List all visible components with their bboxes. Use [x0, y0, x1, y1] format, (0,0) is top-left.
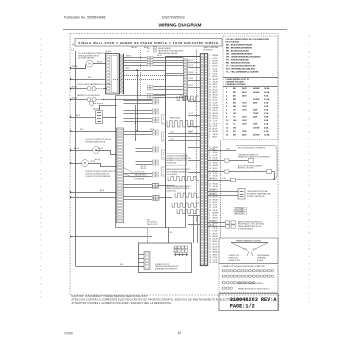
svg-text:0.8A: 0.8A	[264, 116, 269, 119]
wire border to power board	[70, 236, 152, 238]
svg-text:0.3A: 0.3A	[264, 101, 269, 104]
svg-text:VT-18: VT-18	[189, 124, 193, 126]
svg-text:CAUTION: DISCONNECT POWER BEFO: CAUTION: DISCONNECT POWER BEFORE SERVICI…	[72, 295, 149, 298]
connector codes box	[219, 264, 278, 293]
wire row BK-18 P-18	[208, 178, 236, 182]
door lock motor	[70, 147, 117, 155]
broil element note	[167, 186, 192, 193]
svg-text:BR-18: BR-18	[213, 136, 218, 138]
junction column	[135, 105, 146, 170]
neutral bus wire	[75, 51, 77, 266]
svg-text:750W: 750W	[253, 113, 258, 115]
svg-text:WH-12 GY-12: WH-12 GY-12	[147, 224, 158, 226]
relay board label	[147, 47, 184, 55]
svg-text:COLOR CODE/CODIGO DE COLORES/C: COLOR CODE/CODIGO DE COLORES/CODE	[226, 39, 270, 41]
svg-text:RD-18: RD-18	[174, 248, 179, 250]
timer label	[203, 46, 218, 51]
wiring harness legend box	[219, 238, 278, 264]
ladder wedge marks	[124, 168, 135, 178]
header rule	[63, 29, 287, 31]
relay pin column right	[183, 59, 187, 100]
dashed partition right area	[220, 140, 222, 238]
cooling fan motor label	[78, 52, 110, 60]
svg-text:0.3A: 0.3A	[264, 105, 269, 108]
svg-text:12.5A: 12.5A	[264, 91, 270, 94]
wire relay to power board	[168, 228, 170, 244]
wire L1 from border	[70, 68, 86, 70]
element wire rows	[168, 132, 200, 141]
svg-text:M: M	[84, 162, 86, 165]
svg-text:2500W 240V: 2500W 240V	[167, 162, 178, 164]
svg-text:Publication No. 5995544686: Publication No. 5995544686	[64, 16, 106, 20]
svg-text:P-18: P-18	[226, 149, 230, 151]
svg-text:0.1A: 0.1A	[264, 130, 269, 133]
svg-text:AFTER 12 HOURS: AFTER 12 HOURS	[238, 167, 254, 170]
wire EOC to relay top	[113, 47, 166, 131]
svg-text:FACULTATIF: FACULTATIF	[235, 212, 245, 215]
svg-text:120V: 120V	[242, 106, 247, 108]
svg-text:BK-8: BK-8	[150, 129, 154, 131]
element meander top	[177, 96, 199, 101]
svg-text:WH-18: WH-18	[210, 221, 215, 223]
svg-text:ATTENTION:COUPEZ L'ALIMENTATIO: ATTENTION:COUPEZ L'ALIMENTATION AVANT D'…	[72, 302, 173, 305]
oven wiring box	[116, 96, 186, 228]
svg-text:07/09: 07/09	[65, 331, 73, 335]
svg-text:240V: 240V	[242, 133, 247, 136]
svg-text:L1-8: L1-8	[169, 232, 172, 234]
svg-text:DE PUERTA: DE PUERTA	[135, 178, 145, 181]
svg-text:CLOCK: CLOCK	[105, 51, 112, 53]
svg-text:WH-18: WH-18	[72, 98, 77, 100]
temperature probe connector	[208, 189, 271, 200]
door lock motor label	[85, 138, 111, 143]
svg-text:J-##: J-##	[253, 248, 256, 250]
svg-text:RD - RED/ROJO/ROUGE: RD - RED/ROJO/ROUGE	[226, 63, 251, 65]
wire to door connector	[70, 190, 117, 193]
bake element meander	[167, 117, 196, 127]
svg-text:BK-18: BK-18	[210, 178, 215, 180]
auto shutoff rounded box	[236, 146, 277, 180]
svg-text:RD-18: RD-18	[189, 65, 194, 67]
oven lamp pair 2	[70, 98, 153, 106]
relay coils	[161, 115, 165, 176]
relay board top wires	[124, 55, 184, 98]
main connector ladder P1	[200, 54, 208, 267]
svg-text:TABLEAU DES RELAIS: TABLEAU DES RELAIS	[158, 52, 178, 55]
oven lamp pair 1	[70, 87, 107, 91]
wire W-8 long	[70, 129, 154, 132]
svg-text:RD-18: RD-18	[141, 168, 146, 170]
svg-text:BU-18: BU-18	[189, 85, 194, 87]
svg-text:BK-8: BK-8	[126, 68, 130, 70]
svg-text:1200W: 1200W	[253, 99, 259, 101]
svg-text:240V: 240V	[242, 94, 247, 97]
svg-text:GY-18: GY-18	[189, 99, 194, 101]
svg-text:4.8A: 4.8A	[264, 126, 269, 129]
svg-text:120V: 120V	[242, 110, 247, 112]
svg-text:BK-18: BK-18	[157, 55, 162, 57]
svg-text:0.5A: 0.5A	[264, 119, 269, 122]
svg-text:WH-18: WH-18	[210, 194, 215, 196]
convection motor label	[85, 171, 116, 178]
svg-text:DE HORNO: DE HORNO	[203, 50, 213, 52]
convection motor	[70, 159, 117, 167]
svg-text:W-8: W-8	[120, 264, 123, 266]
svg-text:WH-18: WH-18	[126, 56, 131, 58]
svg-text:120V: 120V	[242, 120, 247, 122]
broil element meander	[175, 193, 199, 197]
svg-text:EW27EW55GS: EW27EW55GS	[162, 16, 186, 20]
svg-text:P-##: P-##	[244, 248, 248, 250]
svg-text:240V: 240V	[242, 91, 247, 94]
electronic oven control (EOC)	[40, 35, 310, 335]
svg-text:WH-18: WH-18	[72, 87, 77, 89]
svg-text:BK-18: BK-18	[74, 148, 79, 150]
svg-text:WH - WHITE/BLANCO/BLANC: WH - WHITE/BLANCO/BLANC	[226, 68, 256, 71]
bake element lower meander	[168, 177, 199, 181]
svg-text:SONDE THERMIQUE: SONDE THERMIQUE	[247, 196, 265, 198]
svg-text:YL-18: YL-18	[189, 113, 193, 115]
ladder pin labels	[209, 55, 219, 264]
svg-text:P-18: P-18	[170, 132, 173, 134]
wires into ladder from relay board	[188, 60, 200, 224]
svg-text:YL - YELLOW/AMARILLO/JAUNE: YL - YELLOW/AMARILLO/JAUNE	[226, 71, 259, 74]
svg-text:95W: 95W	[253, 117, 257, 119]
svg-text:40W: 40W	[253, 101, 257, 104]
svg-text:14.2A: 14.2A	[264, 87, 270, 90]
element meander 5	[177, 210, 199, 214]
svg-text:BORNE: BORNE	[257, 260, 264, 262]
svg-text:BK-18: BK-18	[210, 225, 215, 227]
svg-text:CONVECTION VENTILATEUR: CONVECTION VENTILATEUR	[85, 175, 111, 178]
cooling fan motor	[72, 60, 106, 68]
svg-text:BR-18: BR-18	[189, 131, 194, 133]
svg-text:9.6A: 9.6A	[264, 94, 269, 97]
svg-text:0.1A: 0.1A	[264, 123, 269, 126]
svg-text:WIRING DIAGRAM: WIRING DIAGRAM	[159, 23, 202, 29]
element meander 4	[172, 203, 199, 207]
svg-text:BK-18: BK-18	[97, 61, 102, 63]
svg-text:1150W: 1150W	[253, 127, 259, 129]
main dashed border	[70, 34, 278, 296]
relay board input wires	[124, 101, 153, 200]
svg-text:W-8: W-8	[88, 77, 91, 79]
svg-text:BK - BLACK/NEGRO/NOIR: BK - BLACK/NEGRO/NOIR	[226, 44, 253, 47]
main power board	[139, 215, 198, 273]
svg-text:W-8: W-8	[80, 129, 83, 131]
svg-text:CONNECTEUR: CONNECTEUR	[228, 260, 241, 262]
svg-text:BK-18: BK-18	[210, 149, 215, 151]
svg-text:240V: 240V	[242, 87, 247, 90]
svg-text:VT - VIOLET/VIOLETA/VIOLET: VT - VIOLET/VIOLETA/VIOLET	[226, 65, 256, 68]
svg-text:P-16: P-16	[170, 139, 173, 141]
svg-text:PAGE:1/2: PAGE:1/2	[230, 304, 255, 310]
svg-text:WH-18: WH-18	[131, 47, 137, 49]
svg-text:DE COULEUR: DE COULEUR	[226, 42, 240, 44]
svg-text:120V: 120V	[242, 131, 247, 133]
svg-text:OR-18: OR-18	[90, 161, 95, 163]
svg-text:RD-18: RD-18	[98, 148, 103, 150]
load rating table	[223, 78, 278, 137]
thermal limiter	[70, 105, 117, 124]
svg-text:10.0A: 10.0A	[264, 98, 270, 101]
svg-text:CERRADURA/MOTEUR: CERRADURA/MOTEUR	[85, 141, 106, 144]
svg-text:OR-18: OR-18	[189, 78, 194, 80]
wire W-8 upper	[70, 77, 106, 80]
svg-text:0.2A: 0.2A	[264, 109, 269, 112]
svg-text:BK-8: BK-8	[76, 115, 80, 117]
svg-text:BK-18: BK-18	[95, 159, 100, 161]
svg-text:ALIMENTATION D'ENERGIE: ALIMENTATION D'ENERGIE	[155, 267, 178, 270]
svg-text:120V: 120V	[242, 124, 247, 126]
svg-text:3.1A: 3.1A	[264, 112, 269, 115]
svg-text:DU VENTILATEUR: DU VENTILATEUR	[78, 57, 95, 60]
svg-text:120V: 120V	[242, 102, 247, 104]
svg-text:PK - PINK/ROSA/ROSE: PK - PINK/ROSA/ROSE	[226, 59, 249, 62]
svg-text:BK-18: BK-18	[189, 60, 194, 62]
svg-text:BK-18: BK-18	[174, 251, 179, 253]
svg-text:CHARGES VOLTAGE: CHARGES VOLTAGE	[226, 83, 247, 86]
svg-text:OR - ORANGE/NARANJA/ORANGE: OR - ORANGE/NARANJA/ORANGE	[226, 56, 261, 59]
svg-text:2500W: 2500W	[253, 134, 259, 136]
svg-text:RD-18: RD-18	[210, 190, 215, 192]
margin color dots right	[309, 35, 310, 302]
svg-text:25W: 25W	[253, 110, 257, 112]
svg-text:M: M	[88, 63, 90, 66]
relay board input pins	[152, 99, 158, 201]
diagram title box	[75, 39, 222, 46]
svg-text:P-18: P-18	[222, 178, 226, 180]
svg-text:LAMPES DU FOUR/2X40W: LAMPES DU FOUR/2X40W	[77, 94, 100, 97]
svg-text:SONDE A VIANDE: SONDE A VIANDE	[238, 228, 254, 231]
svg-text:3400W 240V: 3400W 240V	[167, 190, 178, 192]
svg-text:3400W: 3400W	[253, 87, 259, 90]
svg-text:DE CUISSON: DE CUISSON	[167, 174, 178, 176]
svg-text:OR-18: OR-18	[213, 262, 218, 264]
svg-text:BAKE 3400W: BAKE 3400W	[170, 117, 181, 120]
svg-text:BK-8: BK-8	[100, 190, 104, 192]
caution note	[72, 295, 250, 305]
component boxes mid	[153, 184, 175, 201]
svg-text:WH-18: WH-18	[189, 72, 194, 74]
svg-text:20: 20	[209, 262, 211, 264]
wire color code legend	[223, 36, 278, 140]
svg-text:120V: 120V	[242, 117, 247, 119]
svg-text:2: 2	[209, 136, 210, 138]
margin color dots left	[40, 38, 41, 297]
svg-text:3000W: 3000W	[253, 92, 259, 94]
svg-text:BR - BROWN/CAFE/BRUN: BR - BROWN/CAFE/BRUN	[226, 47, 252, 50]
bake element note	[167, 168, 191, 176]
svg-text:WH-18: WH-18	[72, 66, 78, 68]
relay board box	[166, 57, 201, 228]
meat probe wires	[208, 220, 265, 230]
P12 label	[147, 219, 158, 226]
svg-text:ATENCION:CORTAR LA CORRIENTE E: ATENCION:CORTAR LA CORRIENTE ELECTRICA A…	[72, 298, 250, 301]
auto shutoff wires	[208, 149, 275, 180]
svg-text:CONNECTOR CODES/CODIGOS DEL CO: CONNECTOR CODES/CODIGOS DEL CONECTOR	[222, 266, 266, 268]
door lock connector ladder	[117, 128, 124, 223]
wire bus junction	[70, 196, 144, 266]
optional label	[234, 207, 247, 215]
svg-text:WIRING HARNESS LEGEND: WIRING HARNESS LEGEND	[236, 239, 262, 242]
main power board label	[155, 248, 179, 270]
dashed partition left of ladder	[196, 50, 198, 222]
svg-text:SINGLE WALL OVEN // HORNO DE P: SINGLE WALL OVEN // HORNO DE PARED SIMPL…	[78, 41, 218, 45]
svg-text:WH: WH	[233, 120, 237, 122]
convection element note	[166, 154, 192, 166]
svg-text:15W: 15W	[253, 124, 257, 126]
svg-text:AUTO REGULATOR OF ENERGY: AUTO REGULATOR OF ENERGY	[238, 147, 266, 150]
svg-text:PARALLEL/CONNECTION ELEMENTS: PARALLEL/CONNECTION ELEMENTS	[238, 156, 271, 159]
door harness text	[135, 172, 148, 181]
svg-text:BU - BLUE/AZUL/BLEU: BU - BLUE/AZUL/BLEU	[226, 50, 249, 53]
svg-text:OVEN LIGHTS/LAMPARAS DEL HORNO: OVEN LIGHTS/LAMPARAS DEL HORNO	[77, 83, 112, 86]
svg-text:10.4A: 10.4A	[264, 133, 270, 136]
part number box	[219, 294, 278, 311]
svg-text:GN - GREEN/VERDE/VERT: GN - GREEN/VERDE/VERT	[226, 54, 253, 56]
svg-text:10: 10	[178, 331, 182, 335]
